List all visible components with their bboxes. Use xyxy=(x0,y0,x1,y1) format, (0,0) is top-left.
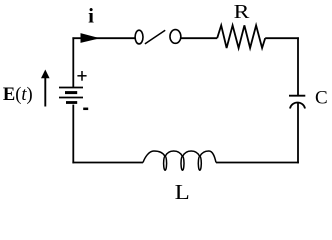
wire right vertical (top segment to capacitor) xyxy=(297,37,299,95)
switch blade xyxy=(145,30,165,44)
battery plate 3 (long thin) xyxy=(59,97,83,99)
svg-text:L: L xyxy=(175,181,190,199)
wire left vertical (top segment to battery) xyxy=(72,37,74,87)
wire bottom left horizontal xyxy=(72,162,143,164)
capacitor C bottom curved plate xyxy=(290,102,305,108)
wire right vertical (capacitor to bottom-right corner) xyxy=(297,102,299,163)
battery plate 1 (long thin) xyxy=(59,87,83,89)
svg-text:i: i xyxy=(88,4,94,28)
battery plate 4 (short thick) xyxy=(66,101,77,104)
wire switch to resistor xyxy=(181,37,217,39)
svg-text:C: C xyxy=(315,87,328,108)
current arrow i xyxy=(81,33,101,43)
svg-text:E(t): E(t) xyxy=(3,85,33,105)
switch circle right xyxy=(170,30,181,44)
plus sign xyxy=(77,71,86,81)
wire resistor to top-right corner xyxy=(265,37,299,39)
E(t) direction arrow head xyxy=(41,70,50,79)
wire bottom right horizontal xyxy=(216,162,299,164)
wire left vertical (battery to bottom-left corner) xyxy=(72,105,74,164)
svg-text:R: R xyxy=(234,0,250,22)
resistor R zigzag xyxy=(217,25,265,48)
switch circle left xyxy=(135,30,143,44)
inductor L coil xyxy=(143,151,216,170)
minus sign xyxy=(83,108,88,111)
wire top-left horizontal xyxy=(72,37,135,39)
E(t) direction arrow shaft xyxy=(44,78,46,107)
battery plate 2 (short thick) xyxy=(65,91,77,94)
capacitor C top plate xyxy=(289,95,305,97)
